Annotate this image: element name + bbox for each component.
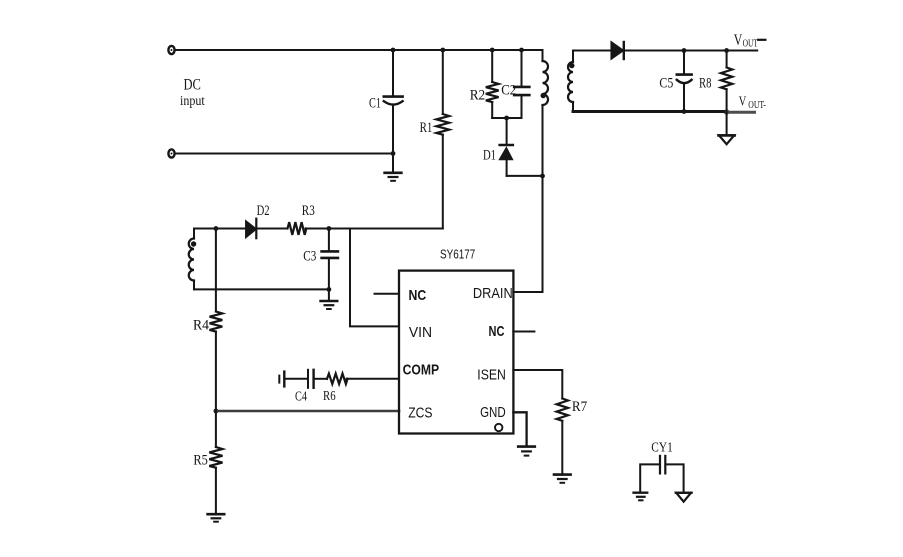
- node C3 bottom: [327, 287, 332, 292]
- svg-text:R4: R4: [193, 317, 209, 333]
- svg-text:ZCS: ZCS: [408, 404, 432, 421]
- svg-text:C1: C1: [369, 96, 381, 112]
- node ZCS: [214, 409, 219, 414]
- resistor R1: [436, 50, 449, 229]
- svg-text:OUT-: OUT-: [748, 100, 766, 111]
- node C2 top: [519, 48, 524, 53]
- wire secondary bottom rail: [573, 110, 727, 113]
- svg-text:ISEN: ISEN: [477, 367, 506, 384]
- svg-text:R5: R5: [193, 452, 208, 468]
- node C5 top: [682, 48, 687, 53]
- wire D2 to R3: [256, 228, 287, 230]
- wire aux bottom: [194, 288, 329, 290]
- wire VIN branch: [350, 229, 399, 327]
- pin 1 marker circle: [495, 424, 502, 431]
- transformer primary winding: [543, 50, 549, 292]
- svg-text:OUT: OUT: [743, 38, 759, 50]
- node C3 top: [327, 226, 332, 231]
- ground below R7: [554, 475, 571, 483]
- wire DRAIN stub: [513, 291, 542, 293]
- svg-text:C2: C2: [501, 82, 516, 98]
- svg-text:CY1: CY1: [651, 441, 673, 456]
- svg-text:GND: GND: [480, 404, 506, 421]
- svg-text:VIN: VIN: [409, 324, 432, 341]
- ground sideways at COMP chain: [279, 372, 284, 387]
- resistor R3: [288, 222, 307, 235]
- svg-text:V: V: [734, 32, 743, 49]
- capacitor C2: [514, 50, 529, 118]
- terminal DC-: [168, 149, 174, 157]
- capacitor CY1: [640, 456, 683, 493]
- svg-text:R6: R6: [323, 389, 336, 404]
- phase dot secondary: [569, 63, 574, 68]
- wire aux top: [194, 228, 246, 230]
- node R4 top: [214, 226, 219, 231]
- label DC input: [180, 77, 205, 109]
- svg-text:R2: R2: [470, 87, 486, 103]
- svg-text:D1: D1: [483, 147, 496, 163]
- wire C4 to R6: [315, 378, 327, 380]
- ground CY1 right open triangle: [676, 493, 691, 502]
- wire NC left stub: [375, 293, 400, 295]
- label VOUT+: [734, 32, 758, 50]
- wire top rail: [176, 49, 543, 51]
- capacitor C1: [384, 50, 403, 154]
- resistor R7: [557, 399, 568, 475]
- resistor R5: [209, 411, 222, 514]
- svg-text:DC: DC: [184, 77, 201, 94]
- node R8 top: [724, 48, 729, 53]
- svg-text:R8: R8: [699, 76, 712, 92]
- ground below R5: [208, 514, 225, 522]
- ground below GND pin: [518, 447, 535, 456]
- label VOUT-: [739, 94, 766, 111]
- ground CY1 left: [634, 493, 648, 501]
- svg-text:C3: C3: [303, 249, 316, 265]
- svg-text:SY6177: SY6177: [440, 247, 475, 262]
- ground below Vout-: [719, 112, 735, 144]
- diode D2: [246, 219, 256, 239]
- svg-text:V: V: [739, 94, 747, 109]
- resistor R8: [721, 51, 732, 113]
- diode output rectifier: [611, 42, 624, 59]
- svg-text:NC: NC: [409, 287, 427, 304]
- wire D1 to primary: [507, 175, 543, 177]
- wire to C4: [286, 378, 307, 380]
- ground below C3: [321, 289, 338, 309]
- resistor R6: [327, 374, 347, 384]
- wire GND pin: [513, 412, 526, 446]
- wire ZCS: [216, 410, 399, 413]
- svg-text:NC: NC: [489, 323, 505, 340]
- svg-text:C4: C4: [295, 390, 307, 405]
- phase dot primary: [541, 93, 546, 98]
- dash after VOUT+: [758, 39, 765, 41]
- wire NC right stub: [513, 331, 534, 333]
- svg-text:R7: R7: [572, 399, 588, 415]
- transformer secondary winding: [568, 51, 573, 112]
- wire Vout- gray extension: [727, 111, 755, 114]
- node R1 top: [440, 48, 445, 53]
- capacitor C5: [677, 51, 692, 112]
- svg-text:DRAIN: DRAIN: [473, 285, 513, 302]
- wire rectifier to Vout: [624, 50, 757, 52]
- svg-text:COMP: COMP: [403, 362, 440, 379]
- wire secondary top rail: [573, 50, 611, 52]
- diode D1: [498, 118, 513, 176]
- svg-text:D2: D2: [257, 203, 270, 219]
- terminal DC+: [168, 46, 174, 54]
- svg-text:input: input: [180, 94, 205, 109]
- svg-text:C5: C5: [659, 76, 673, 92]
- node C1 top: [391, 48, 396, 53]
- wire ISEN to R7: [513, 370, 562, 399]
- wire snubber bottom: [492, 117, 521, 119]
- node snubber mid: [504, 116, 509, 121]
- wire DC bottom rail: [176, 153, 394, 155]
- node primary bottom junction: [540, 174, 545, 179]
- capacitor C3: [322, 229, 338, 290]
- capacitor C4: [308, 370, 314, 388]
- svg-text:R1: R1: [420, 120, 433, 136]
- svg-text:R3: R3: [302, 203, 315, 219]
- IC U1 SY6177 box: [399, 271, 513, 434]
- wire R6 to COMP: [347, 378, 400, 380]
- node C1 bottom: [391, 151, 396, 156]
- node R8 bottom: [724, 109, 729, 114]
- node R2 top: [490, 48, 495, 53]
- phase dot aux: [191, 241, 196, 246]
- node C5 bottom: [682, 109, 687, 114]
- resistor R2: [486, 50, 499, 118]
- resistor R4: [209, 229, 222, 412]
- wire R3 to R1: [305, 228, 442, 230]
- aux winding: [189, 229, 194, 290]
- ground below C1: [385, 154, 402, 181]
